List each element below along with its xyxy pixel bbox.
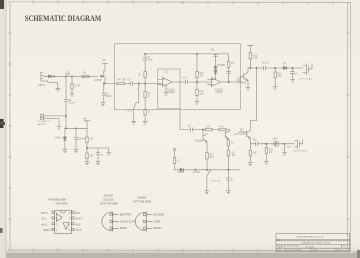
resistor R19 56 1W	[227, 150, 229, 170]
capacitor C20 (diode column)	[214, 55, 218, 57]
svg-text:2N4304: 2N4304	[138, 197, 147, 200]
node C2 tap	[65, 76, 67, 78]
footswitch SW2	[207, 170, 240, 191]
capacitor C7	[143, 54, 147, 72]
node battery plus	[65, 115, 67, 117]
resistor R21	[86, 128, 88, 148]
node R1 tap	[71, 76, 73, 78]
svg-text:BOTTOM VIEW: BOTTOM VIEW	[100, 203, 118, 206]
svg-text:AC128: AC128	[193, 171, 201, 174]
DIP8 opamp triangle B	[63, 223, 69, 230]
diode D4	[284, 66, 287, 69]
svg-text:1M: 1M	[83, 73, 86, 75]
svg-text:1M: 1M	[138, 75, 141, 77]
pinout TO92 transistor 1	[102, 212, 119, 231]
pinout DIP8 labels	[41, 199, 83, 233]
wire box bottom to lower stage	[180, 109, 191, 129]
node D5/wire	[195, 169, 197, 171]
svg-text:10mF: 10mF	[106, 96, 112, 98]
svg-text:GATE: GATE	[154, 220, 161, 223]
input jack J1	[40, 73, 44, 81]
ground (R23)	[248, 163, 252, 166]
svg-text:10K: 10K	[200, 76, 205, 78]
node after diode	[53, 75, 55, 77]
node rail left	[144, 53, 146, 55]
capacitor C2	[64, 100, 68, 116]
wire collector node right	[248, 67, 264, 69]
wire filter node right	[87, 147, 109, 149]
svg-text:SD-0108: SD-0108	[305, 247, 314, 249]
ground (Q3 emitter)	[246, 88, 250, 91]
test stub terminal	[173, 148, 175, 150]
node C9/R10	[196, 81, 198, 83]
svg-text:SUNRISE BOX PEDAL PS-010: SUNRISE BOX PEDAL PS-010	[302, 242, 331, 245]
svg-text:TOP VIEW: TOP VIEW	[56, 203, 69, 206]
pinout DIP8 IC	[52, 211, 74, 234]
DIP8 opamp triangle A	[57, 214, 63, 222]
capacitor C4	[131, 82, 162, 86]
transistor Q3	[244, 68, 248, 88]
svg-text:4.7K: 4.7K	[206, 127, 211, 129]
node R5/C8	[144, 83, 146, 85]
svg-text:+9V: +9V	[83, 119, 88, 121]
svg-text:220mF: 220mF	[78, 139, 86, 141]
svg-text:SCHEMATIC DIAGRAM: SCHEMATIC DIAGRAM	[25, 13, 102, 23]
svg-text:4.7K: 4.7K	[253, 58, 258, 60]
ground stub (jack sleeve)	[282, 144, 286, 156]
ground (C18)	[226, 191, 230, 194]
svg-text:T-0.1S: T-0.1S	[126, 111, 133, 113]
transistor Q6	[234, 131, 251, 144]
svg-text:C12 1u: C12 1u	[262, 63, 270, 65]
svg-text:LM358: LM358	[216, 92, 224, 94]
output jack J2	[303, 64, 312, 76]
capacitor C15	[74, 128, 78, 150]
wire C4 node down to footswitch	[136, 84, 139, 103]
pinout TO92 transistor 2	[135, 212, 152, 231]
node lower rail	[202, 129, 204, 131]
resistor R15	[206, 128, 213, 130]
svg-text:COLLECTOR: COLLECTOR	[120, 220, 135, 223]
svg-text:1M: 1M	[231, 63, 234, 65]
ground (R1)	[70, 94, 74, 97]
LED D6	[274, 141, 295, 146]
svg-text:VCC: VCC	[75, 212, 80, 215]
svg-text:INPUT: INPUT	[38, 85, 45, 87]
resistor R12 feedback	[228, 54, 230, 71]
svg-text:-IN 2: -IN 2	[75, 223, 81, 226]
svg-text:LM358: LM358	[168, 92, 176, 94]
ground (C16)	[96, 162, 100, 165]
resistor R23 (Q6 emitter)	[249, 144, 251, 163]
title block	[276, 234, 350, 252]
svg-text:1K: 1K	[231, 143, 234, 145]
op-amp U1B	[208, 78, 221, 87]
svg-text:2N5088: 2N5088	[239, 132, 248, 134]
ground (C17)	[290, 80, 294, 83]
svg-text:10K: 10K	[122, 80, 127, 82]
battery clip BT1	[41, 114, 67, 126]
svg-text:OUT 1: OUT 1	[41, 212, 49, 215]
node R17 landing	[206, 169, 208, 171]
DIP8 pin squares right	[72, 211, 75, 213]
ground (R6)	[143, 121, 147, 124]
svg-text:FOOT SW: FOOT SW	[211, 181, 221, 183]
svg-text:BOTTOM VIEW: BOTTOM VIEW	[134, 201, 152, 204]
svg-text:AMP: AMP	[287, 146, 292, 149]
inner block box IC1	[158, 69, 180, 109]
svg-text:SOURCE: SOURCE	[154, 214, 165, 217]
ground (R20)	[264, 162, 268, 165]
svg-text:Rev: Rev	[343, 245, 346, 247]
svg-text:1M: 1M	[269, 152, 272, 154]
ground (R11)	[195, 102, 199, 105]
svg-text:1 of 1: 1 of 1	[338, 250, 343, 252]
transistor Q5	[203, 130, 207, 153]
resistor R11	[196, 82, 198, 102]
svg-text:OUTPUT JACK: OUTPUT JACK	[293, 150, 308, 153]
node C18 tap	[227, 169, 229, 171]
node rail mid	[196, 53, 198, 55]
ground (U1A bias)	[164, 85, 168, 95]
resistor R17	[206, 153, 208, 170]
pinout TO92-1 labels	[100, 195, 135, 231]
diode pair D2 D3	[211, 54, 217, 80]
resistor R14	[274, 68, 276, 87]
svg-text:KA4558/LM358: KA4558/LM358	[49, 199, 67, 202]
transistor Q4	[226, 130, 230, 140]
svg-text:DRAIN: DRAIN	[154, 227, 162, 230]
scan artifact blobs left edge	[0, 0, 4, 9]
capacitor C17	[291, 67, 295, 79]
op-amp U1A	[158, 77, 172, 86]
diode D5	[180, 168, 183, 171]
svg-text:J201/J52: J201/J52	[103, 199, 114, 202]
wire battery node down to rail	[66, 116, 87, 128]
bias rail wire y53.9	[145, 53, 229, 55]
ground (C15)	[74, 150, 78, 153]
node Q1 emitter	[103, 83, 105, 85]
resistor R6 1k	[144, 110, 146, 122]
resistor R20	[265, 144, 267, 162]
capacitor C13 stub	[173, 158, 175, 170]
power +9V flag (R13)	[248, 45, 253, 52]
resistor R4	[117, 82, 125, 84]
svg-text:+IN 1: +IN 1	[41, 223, 48, 226]
svg-text:AC ADAPTOR: AC ADAPTOR	[37, 120, 51, 123]
node power rail left	[65, 127, 67, 129]
svg-text:1N914: 1N914	[55, 138, 62, 140]
resistor R5	[144, 72, 146, 92]
ground (D7)	[63, 150, 67, 153]
svg-text:10K: 10K	[278, 76, 283, 78]
wire input to Q1 base	[44, 75, 98, 77]
output jack J3	[295, 140, 303, 149]
svg-text:Title: Title	[277, 238, 281, 241]
pinout TO92-2 labels	[134, 197, 165, 231]
DIP8 pin squares left	[52, 211, 55, 213]
capacitor C16	[96, 148, 100, 162]
resistor R1 (input bias)	[71, 76, 73, 93]
ground (C3)	[101, 103, 105, 106]
power +9V flag (rail)	[84, 121, 90, 129]
svg-text:.0047: .0047	[65, 74, 71, 76]
svg-text:2N5088: 2N5088	[238, 83, 247, 85]
junction node after C4	[138, 83, 140, 85]
resistor R10	[196, 54, 198, 82]
wire node to C2 column	[65, 76, 67, 99]
diode D1 on input wire	[49, 75, 52, 78]
transistor Q1 JFET	[101, 64, 105, 84]
svg-text:Date:: Date:	[277, 249, 282, 252]
svg-text:OUTPUT JACK: OUTPUT JACK	[299, 78, 314, 81]
capacitor C3 (Q1 source)	[102, 84, 106, 103]
ground (input sleeve)	[56, 88, 60, 91]
capacitor C12	[264, 66, 304, 70]
diode D7	[63, 128, 66, 150]
node U1B out / feedback	[228, 81, 230, 83]
svg-text:BASE: BASE	[120, 227, 127, 230]
svg-text:10K: 10K	[90, 156, 95, 158]
svg-text:GND 4: GND 4	[43, 229, 51, 232]
ground (filter end)	[107, 148, 111, 156]
capacitor C9	[186, 80, 212, 84]
svg-text:LED: LED	[273, 139, 278, 141]
svg-text:BATTERY: BATTERY	[37, 123, 47, 126]
wire to Q3 base	[240, 76, 244, 82]
node C12/R14	[274, 67, 276, 69]
capacitor C19 feedback	[227, 71, 231, 82]
svg-text:+IN 2: +IN 2	[75, 229, 82, 232]
svg-text:C9 .1: C9 .1	[183, 78, 189, 80]
main signal wire y83	[104, 83, 117, 85]
svg-text:1K: 1K	[148, 112, 151, 114]
svg-text:EMITTER: EMITTER	[120, 214, 131, 217]
resistor R13	[249, 53, 251, 69]
node filter	[86, 147, 88, 149]
svg-text:2N5088: 2N5088	[195, 141, 204, 143]
node rail / C15	[75, 127, 77, 129]
ground (battery minus)	[57, 127, 61, 130]
svg-text:2N5088: 2N5088	[217, 65, 226, 67]
lower signal wire y170	[175, 169, 181, 171]
node C14/R20	[265, 143, 267, 145]
enclosure box	[115, 44, 241, 110]
capacitor C14	[256, 142, 274, 146]
svg-text:47pF: 47pF	[148, 60, 154, 62]
svg-text:Document Number: Document Number	[283, 244, 299, 247]
capacitor C18	[226, 170, 230, 191]
svg-text:10K: 10K	[210, 157, 215, 159]
svg-text:August 10, 1998: August 10, 1998	[285, 249, 302, 252]
svg-text:2.2M: 2.2M	[75, 86, 80, 88]
capacitor C8	[144, 92, 146, 110]
ground (SW1)	[132, 121, 136, 124]
resistor R18	[227, 140, 229, 150]
lower output wire y143.8	[250, 143, 255, 145]
title block text	[277, 236, 347, 252]
resistor R16	[219, 128, 226, 130]
jack sleeve wire to ground	[41, 81, 58, 88]
svg-text:GUYATONE PARTS CO.,LTD: GUYATONE PARTS CO.,LTD	[297, 236, 324, 239]
svg-text:1M: 1M	[90, 139, 93, 141]
wire U1B output	[221, 81, 240, 83]
svg-text:2N4304: 2N4304	[104, 195, 113, 198]
wire U1A output	[172, 81, 186, 83]
svg-text:Sheet: Sheet	[313, 249, 318, 252]
svg-text:+9V: +9V	[102, 60, 107, 62]
svg-text:-IN 1: -IN 1	[41, 218, 47, 221]
long wire node to Q6 collector	[250, 68, 256, 131]
resistor R2 series	[82, 75, 89, 77]
resistor R22	[86, 148, 88, 162]
svg-text:1uF: 1uF	[200, 94, 205, 96]
footswitch SW1	[134, 103, 136, 122]
svg-text:OUT 2: OUT 2	[75, 218, 83, 221]
svg-text:4.7K: 4.7K	[219, 127, 224, 129]
svg-text:1N916: 1N916	[177, 172, 184, 174]
ground (SW2 pole)	[205, 191, 209, 194]
power +9V flag (Q1 drain)	[102, 63, 107, 65]
svg-text:2.2mF: 2.2mF	[69, 103, 76, 105]
ground (R14)	[273, 87, 277, 90]
node Q3 collector	[249, 67, 251, 69]
svg-text:2N5457: 2N5457	[94, 80, 103, 82]
ground (R22)	[85, 162, 89, 165]
capacitor C11	[191, 128, 206, 132]
